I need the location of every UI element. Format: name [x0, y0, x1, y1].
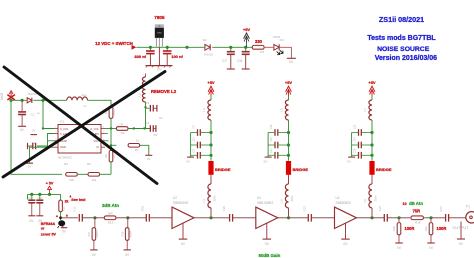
svg-text:dB Atn: dB Atn [409, 201, 423, 206]
svg-text:R11: R11 [62, 206, 66, 211]
wire filter cap rail [351, 133, 353, 157]
junction dots filter caps [370, 131, 373, 134]
svg-text:100R: 100R [436, 226, 446, 231]
wire to C22 [372, 217, 384, 219]
svg-text:BRIDGE: BRIDGE [215, 167, 231, 172]
wire 12V rail [136, 46, 204, 48]
junction dot C1 [21, 99, 24, 102]
resistor R6 0R22 vertical [109, 106, 113, 118]
svg-text:CI: CI [96, 145, 99, 149]
wire R16 to R20 node [423, 217, 445, 219]
svg-text:NOISE SOURCE: NOISE SOURCE [377, 46, 430, 53]
capacitor C1 [21, 100, 23, 111]
svg-text:0V: 0V [289, 60, 294, 64]
ground IC [26, 162, 33, 164]
wire +5V to L5 [288, 95, 290, 100]
wire D_COL to R2 [105, 128, 110, 130]
wire +5V to L7 [371, 95, 373, 100]
svg-text:0V: 0V [347, 160, 351, 164]
svg-text:U3: U3 [257, 196, 261, 200]
wire left net to diode [11, 99, 27, 101]
svg-text:0V: 0V [186, 160, 190, 164]
wire C22 to R18 node [387, 217, 410, 219]
svg-text:0V: 0V [343, 242, 348, 246]
svg-text:L3: L3 [202, 108, 206, 112]
svg-text:+5V: +5V [243, 27, 251, 32]
wire R7 to ground [140, 145, 149, 155]
svg-text:330: 330 [255, 39, 263, 44]
junction dots filter caps [209, 131, 212, 134]
svg-text:D2: D2 [203, 38, 207, 42]
svg-text:10k: 10k [104, 153, 108, 158]
wire bridge to L4 [210, 175, 212, 184]
svg-text:C13: C13 [270, 124, 273, 129]
svg-text:+5V: +5V [207, 80, 215, 85]
junction dot R20 [429, 216, 432, 219]
ground filter caps [265, 156, 272, 158]
ic U1 pin stubs [54, 128, 58, 130]
capacitor 100nf [166, 47, 168, 50]
svg-text:100 nf: 100 nf [171, 54, 183, 59]
svg-text:C12: C12 [38, 196, 43, 200]
svg-text:L2: L2 [137, 93, 141, 97]
svg-text:R4: R4 [64, 162, 68, 166]
svg-text:0V: 0V [147, 157, 151, 161]
svg-text:U4: U4 [336, 196, 340, 200]
capacitor C2 [148, 128, 149, 130]
svg-text:10k: 10k [69, 178, 74, 182]
svg-text:330 nf: 330 nf [134, 54, 146, 59]
resistor R18 100R [398, 218, 400, 222]
wire bridge to L8 [371, 175, 373, 184]
wire C23 to P1 [449, 217, 471, 219]
wire LED to ground [279, 47, 291, 58]
svg-text:0V: 0V [28, 164, 32, 168]
capacitor C8 [245, 47, 247, 51]
wire R8 to rail [110, 162, 112, 174]
svg-text:C7: C7 [222, 58, 227, 63]
svg-text:Version 2016/03/06: Version 2016/03/06 [375, 55, 437, 62]
svg-text:BFR34A: BFR34A [41, 222, 56, 226]
wire L1 to R6 [88, 100, 112, 105]
svg-text:SBB5089Z: SBB5089Z [336, 201, 351, 205]
wire L6 to main [288, 208, 290, 218]
wire U2 out [194, 217, 211, 219]
svg-text:IC1: IC1 [60, 120, 65, 124]
junction dots filter caps [287, 131, 290, 134]
wire R2 to L2 node [128, 128, 151, 130]
svg-text:C12: C12 [354, 124, 357, 129]
resistor R8 10k vertical [109, 150, 113, 162]
ground R17 [90, 249, 98, 251]
svg-text:0R22: 0R22 [112, 109, 116, 116]
wire SCAP to C4 [48, 140, 55, 142]
svg-text:100R: 100R [404, 226, 414, 231]
svg-text:C10: C10 [28, 196, 33, 200]
noise bridge stage3 [369, 161, 374, 175]
svg-text:See text: See text [71, 198, 86, 202]
capacitor C5 [146, 107, 150, 109]
wire U4 out [357, 217, 373, 219]
svg-text:R16: R16 [415, 220, 421, 224]
wire to C18 [128, 217, 147, 219]
svg-text:C8: C8 [237, 58, 242, 63]
resistor R17 300R [94, 218, 96, 228]
svg-text:U2: U2 [173, 196, 177, 200]
junction dot R19 [126, 216, 129, 219]
wire P1 to ground [460, 222, 462, 239]
wire VCC stub [105, 140, 109, 142]
ground transistor [62, 226, 64, 227]
svg-text:D_COL: D_COL [90, 127, 99, 131]
input arrow [132, 45, 137, 50]
svg-text:MC34063C: MC34063C [58, 156, 72, 160]
svg-text:D3: D3 [280, 38, 284, 42]
ground U4 [345, 223, 347, 239]
junction dot C100 [166, 46, 169, 49]
resistor R19 300R [127, 218, 129, 228]
junction dot C7 [229, 46, 232, 49]
svg-text:R5: R5 [87, 162, 91, 166]
svg-text:300R: 300R [95, 231, 99, 237]
wire L8 to main [371, 208, 373, 218]
ground R7 [145, 154, 152, 156]
svg-text:C20: C20 [222, 205, 226, 211]
junction dot R18 [397, 216, 400, 219]
wire to C20 [211, 217, 230, 219]
svg-text:C10: C10 [193, 137, 196, 142]
svg-text:12 VDC + SWITCH: 12 VDC + SWITCH [95, 41, 133, 46]
svg-text:+5V: +5V [368, 80, 376, 85]
wire R6 to D_COL [110, 118, 112, 128]
wire rail to R11 [60, 194, 62, 200]
wire D_COL node down to feedback [110, 129, 112, 146]
svg-text:R15: R15 [108, 221, 114, 225]
svg-text:P1: P1 [466, 204, 470, 208]
wire R3 to LED [264, 46, 273, 48]
junction dot C8 +5V [244, 46, 247, 49]
resistor R20 100R [430, 218, 432, 222]
svg-text:BRIDGE: BRIDGE [293, 167, 309, 172]
svg-text:3dB Atn: 3dB Atn [102, 203, 119, 208]
svg-text:L8: L8 [363, 199, 367, 203]
ground R18 [395, 242, 403, 244]
svg-text:220n: 220n [213, 195, 217, 201]
svg-text:C19: C19 [354, 148, 357, 153]
svg-text:0V: 0V [159, 116, 163, 120]
svg-text:C22: C22 [378, 205, 382, 211]
ground bar under caps [146, 65, 173, 67]
wire noise node to C16 [61, 217, 78, 219]
wire C20 to U3 [233, 217, 256, 219]
wire R15 to R19 node [116, 217, 128, 219]
node feedback [110, 144, 112, 146]
svg-text:Tests mods BG7TBL: Tests mods BG7TBL [367, 35, 436, 42]
svg-text:REMOVE L2: REMOVE L2 [151, 89, 177, 94]
junction dot stage1 [209, 216, 212, 219]
junction dot after diode [41, 99, 44, 102]
svg-text:C1: C1 [31, 113, 35, 117]
node 5V old [9, 99, 12, 102]
svg-text:S_COL: S_COL [60, 127, 69, 131]
wire rail diode to R3 node [212, 46, 252, 48]
svg-text:0V: 0V [181, 242, 186, 246]
ground LED [287, 57, 296, 59]
bottom rail of converter [11, 100, 62, 174]
wire bridge to L6 [288, 175, 290, 184]
ground filter caps [187, 156, 194, 158]
wire C18 to U2 [149, 217, 172, 219]
svg-text:BRIDGE: BRIDGE [376, 167, 392, 172]
svg-text:300R: 300R [129, 231, 133, 237]
ground P1 [457, 238, 465, 240]
junction dot C330 [149, 46, 152, 49]
svg-text:0V: 0V [265, 242, 270, 246]
wire filter cap rail [190, 133, 192, 157]
wire filter cap rail [267, 133, 269, 157]
junction dot mid rail [185, 46, 188, 49]
svg-text:R17: R17 [87, 231, 91, 236]
svg-text:ZS1ii 08/2021: ZS1ii 08/2021 [379, 15, 424, 24]
svg-text:1k: 1k [136, 139, 140, 143]
svg-text:C18: C18 [141, 205, 145, 211]
transistor Q1 BFR34A [58, 220, 65, 226]
svg-text:L7: L7 [363, 108, 367, 112]
wire +5V to L3 [210, 95, 212, 100]
regulator IC2 7805 package [155, 24, 164, 27]
junction dot stage3 [370, 216, 373, 219]
svg-text:7805: 7805 [154, 15, 165, 20]
wire GND pin down [30, 147, 55, 163]
svg-text:R7: R7 [135, 148, 139, 152]
wire L7 to bridge [371, 120, 373, 161]
svg-text:10k: 10k [91, 178, 96, 182]
capacitor 330nf [149, 47, 151, 50]
regulator 7805 legs [155, 38, 157, 47]
capacitor C7 [230, 47, 232, 51]
ground R20 [427, 242, 435, 244]
svg-text:R3: R3 [260, 50, 264, 54]
rail noise section [28, 193, 61, 195]
wire R4 R5 [77, 173, 88, 175]
svg-text:L4: L4 [202, 199, 206, 203]
svg-text:C2: C2 [146, 121, 150, 125]
wire L3 to bridge [210, 120, 212, 161]
wire R5 to R8 [100, 173, 111, 175]
svg-text:GND: GND [60, 145, 66, 149]
svg-text:C15: C15 [270, 137, 273, 142]
wire C16 to attenuator [82, 217, 95, 219]
junction dot stage2 [287, 216, 290, 219]
svg-text:R18: R18 [392, 226, 396, 231]
svg-text:R2: R2 [121, 131, 125, 135]
wire to C21 [289, 217, 309, 219]
svg-text:C21: C21 [302, 205, 306, 211]
ground filter caps [348, 156, 355, 158]
svg-text:+5V: +5V [285, 80, 293, 85]
svg-text:+ 5V: + 5V [46, 182, 54, 186]
power +5V crossed out [9, 91, 13, 94]
svg-text:60dB Gain: 60dB Gain [259, 253, 281, 258]
svg-text:C14: C14 [354, 137, 357, 142]
ground U2 [182, 223, 184, 239]
cancellation X line B [3, 72, 165, 178]
svg-text:R19: R19 [120, 231, 124, 236]
svg-text:10: 10 [402, 201, 406, 206]
ground R19 [123, 249, 131, 251]
svg-text:L1: L1 [84, 104, 88, 108]
wire L2 bottom [145, 102, 147, 129]
wire U3 out [278, 217, 289, 219]
svg-text:SBB5089Z: SBB5089Z [173, 201, 188, 205]
svg-text:L5: L5 [280, 108, 284, 112]
node a [59, 216, 62, 219]
svg-text:b: b [66, 213, 68, 217]
svg-text:C5: C5 [146, 101, 150, 105]
wire R11 to transistor [60, 212, 62, 220]
svg-text:0V: 0V [32, 129, 36, 133]
wire diode to L1 [33, 99, 66, 101]
svg-text:9A08: 9A08 [0, 93, 4, 101]
svg-text:220n: 220n [290, 195, 294, 201]
resistor R11 2k vertical [59, 200, 63, 212]
wire feedback down [110, 145, 112, 150]
svg-text:0V: 0V [264, 160, 268, 164]
wire C21 to U4 [311, 217, 334, 219]
wire L4 to main [210, 208, 212, 218]
wire L5 to bridge [288, 120, 290, 161]
wire S_EM [48, 134, 55, 141]
junction dot L2 bottom [144, 106, 146, 108]
svg-text:10u: 10u [81, 93, 86, 97]
ground U3 [266, 223, 268, 239]
svg-text:L6: L6 [280, 199, 284, 203]
wire 7805 gnd leg [158, 47, 160, 65]
svg-text:C17: C17 [270, 148, 273, 153]
svg-text:KA110: KA110 [204, 52, 213, 56]
noise bridge stage2 [286, 161, 291, 175]
wire S_COL to input node [43, 100, 54, 128]
cancellation X line A [4, 67, 157, 184]
svg-text:C16: C16 [73, 206, 77, 212]
svg-text:R8: R8 [112, 154, 116, 158]
svg-text:75R: 75R [412, 208, 420, 213]
svg-text:or: or [41, 227, 45, 231]
junction dot R17 [93, 216, 96, 219]
label See text [69, 195, 71, 198]
svg-text:2k: 2k [65, 200, 69, 204]
wire IPK stub [105, 133, 108, 135]
svg-text:C23: C23 [439, 206, 443, 212]
ground near C4 [31, 134, 38, 136]
svg-text:zener 5V: zener 5V [41, 232, 57, 236]
svg-text:18R: 18R [107, 212, 113, 216]
svg-text:0V: 0V [157, 68, 162, 72]
svg-text:R20: R20 [424, 226, 428, 231]
svg-text:220n: 220n [374, 195, 378, 201]
noise bridge stage1 [208, 161, 213, 175]
wire to R15 [95, 217, 104, 219]
svg-text:SBB-5089Z: SBB-5089Z [257, 201, 274, 205]
